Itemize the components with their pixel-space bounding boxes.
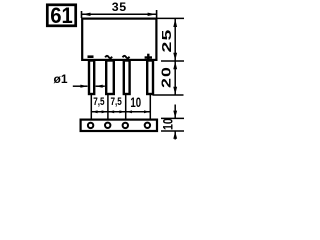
svg-text:10: 10	[160, 118, 176, 130]
pin pitch tick 2	[107, 95, 109, 119]
extension line bar bottom right	[161, 130, 184, 132]
arrows at body bottom ext	[173, 53, 177, 61]
pin 1	[89, 61, 94, 95]
figure label box 61	[47, 5, 75, 29]
dim 35 extension line left	[81, 11, 83, 18]
terminal mark tilde 2	[123, 56, 130, 58]
pin pitch tick 4	[149, 95, 151, 119]
svg-text:25: 25	[159, 28, 174, 52]
svg-text:20: 20	[160, 66, 174, 88]
extension line body bottom right	[161, 60, 184, 62]
dia 1 arrow pointing left	[96, 85, 103, 88]
dim line 10 lower	[174, 131, 176, 139]
pitch arrows at tick3	[119, 110, 125, 113]
body outline	[82, 19, 156, 60]
bottom view bar	[81, 120, 157, 131]
svg-text:35: 35	[112, 0, 127, 14]
extension line pin tips right	[153, 94, 184, 96]
terminal mark tilde 1	[105, 56, 112, 58]
hole 4	[145, 123, 150, 128]
hole 2	[105, 123, 110, 128]
arrow down to bar top	[173, 111, 177, 118]
svg-text:7,5: 7,5	[93, 96, 105, 109]
pin pitch tick 1	[90, 95, 92, 119]
pin 4	[147, 61, 153, 95]
extension line bar top right	[161, 117, 184, 119]
terminal mark plus	[145, 54, 152, 62]
dim 35 arrow right	[148, 13, 157, 16]
dim line 10 upper	[174, 105, 176, 119]
svg-text:7,5: 7,5	[111, 96, 123, 109]
pitch dim line	[91, 111, 151, 113]
arrow up at body top	[173, 19, 177, 27]
dim 35 extension line right	[156, 10, 158, 18]
dia 1 dim line left tail	[73, 85, 88, 87]
pitch arrows at tick4	[144, 110, 150, 113]
pin 2	[106, 61, 114, 95]
dim 35 line	[82, 13, 157, 15]
dia 1 right tail	[96, 85, 105, 87]
svg-text:61: 61	[50, 5, 73, 29]
extension line body top right	[158, 17, 185, 19]
pitch arrows at tick1	[92, 110, 98, 113]
terminal mark minus	[88, 55, 94, 58]
pin 3	[124, 61, 130, 95]
hole 3	[123, 123, 128, 128]
pitch arrows at tick2	[102, 110, 108, 113]
hole 1	[88, 123, 93, 128]
pin pitch tick 3	[125, 95, 127, 119]
dim line 25/20	[174, 19, 176, 96]
dim 35 arrow left	[82, 13, 91, 16]
arrow down at pin tips	[173, 87, 177, 95]
svg-text:ø1: ø1	[54, 72, 68, 86]
arrow up to bar bottom	[173, 131, 177, 138]
dia 1 arrow pointing right	[80, 85, 87, 88]
svg-text:10: 10	[130, 96, 141, 111]
